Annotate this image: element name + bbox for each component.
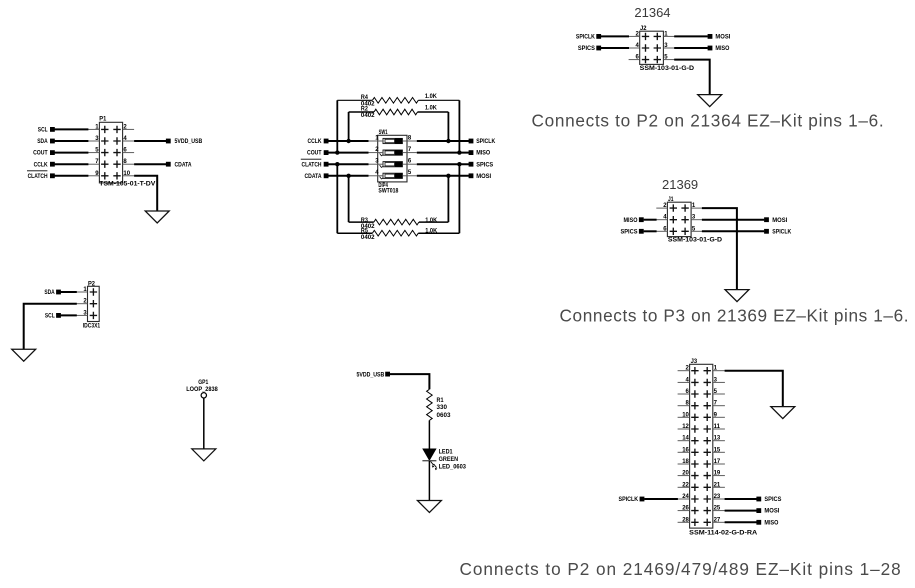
svg-text:SSM-114-02-G-D-RA: SSM-114-02-G-D-RA	[689, 530, 758, 537]
wire R3 left vertical	[348, 176, 350, 222]
terminal SPICLK (J3)	[619, 496, 645, 503]
test loop GP1 labels	[186, 379, 218, 393]
junction R2-CCLK	[346, 139, 350, 143]
wire LED1 to ground	[428, 461, 430, 501]
wire net CLATCH to P1 pin 9	[54, 175, 89, 177]
P1 pin stubs	[88, 129, 134, 175]
svg-text:SSM-103-01-G-D: SSM-103-01-G-D	[668, 237, 723, 244]
svg-text:SCL: SCL	[38, 127, 48, 134]
svg-text:CDATA: CDATA	[175, 161, 192, 168]
J3 pin numbers	[682, 366, 721, 524]
wire R4 right vertical	[458, 100, 460, 152]
svg-text:330: 330	[437, 404, 448, 411]
ground (J1 pin 1)	[725, 290, 749, 302]
terminal SDA	[37, 138, 55, 145]
svg-text:5VDD_USB: 5VDD_USB	[175, 138, 203, 145]
svg-text:J3: J3	[691, 358, 698, 365]
junction R5-SPICS	[457, 162, 461, 166]
wire net SPICS from SW1	[417, 163, 469, 165]
svg-text:SPICS: SPICS	[764, 496, 781, 503]
wire net CCLK to P1 pin 7	[54, 163, 89, 165]
wire R5 right vertical	[458, 164, 460, 233]
wire R4 left vertical	[336, 100, 338, 152]
resistor R3	[349, 217, 449, 230]
svg-text:MOSI: MOSI	[476, 173, 491, 180]
svg-text:1.0K: 1.0K	[425, 228, 437, 235]
svg-text:SPICS: SPICS	[621, 228, 638, 235]
svg-text:R1: R1	[437, 397, 444, 404]
J2 pin numbers	[636, 31, 669, 60]
wire net MOSI from SW1	[417, 175, 469, 177]
wire net MISO to J1 pin 4	[644, 219, 657, 221]
wire R2 right vertical	[447, 112, 449, 141]
wire net SPICS to J1 pin 6	[644, 230, 657, 232]
svg-text:1.0K: 1.0K	[425, 93, 437, 100]
terminal SPICS (J2)	[578, 45, 601, 52]
wire net SDA to P1 pin 3	[54, 140, 89, 142]
svg-text:CLATCH: CLATCH	[302, 161, 322, 168]
terminal MISO (J3)	[756, 519, 778, 526]
svg-text:P1: P1	[99, 116, 107, 123]
connector J2	[640, 31, 664, 64]
junction R2-SPICLK	[446, 139, 450, 143]
wire net 5VDD_USB from P1 pin 4	[134, 140, 166, 142]
svg-text:MOSI: MOSI	[715, 34, 730, 41]
svg-text:0603: 0603	[437, 412, 452, 419]
terminal MOSI (J1)	[764, 217, 787, 224]
wire R3 right vertical	[447, 176, 449, 222]
terminal CDATA	[166, 161, 192, 168]
terminal CLATCH (SW1 side)	[301, 159, 329, 168]
svg-text:CLATCH: CLATCH	[28, 173, 48, 180]
wire J3 pin 1 to ground	[725, 371, 783, 407]
svg-text:MOSI: MOSI	[764, 508, 779, 515]
wire net CCLK to SW1	[327, 140, 368, 142]
svg-text:1.0K: 1.0K	[425, 104, 437, 111]
junction R4-COUT	[335, 150, 339, 154]
wire R2 left vertical	[348, 112, 350, 141]
svg-text:COUT: COUT	[307, 150, 322, 157]
connector J3	[690, 364, 713, 528]
svg-text:Connects to P2 on 21469/479/48: Connects to P2 on 21469/479/489 EZ–Kit p…	[460, 559, 902, 579]
svg-text:SPICS: SPICS	[476, 161, 493, 168]
terminal COUT (SW1 side)	[307, 150, 329, 157]
ground (J3 pin 1)	[771, 407, 795, 419]
terminal SPICS (J1)	[621, 228, 644, 235]
svg-text:SPICLK: SPICLK	[619, 496, 639, 503]
svg-text:SSM-103-01-G-D: SSM-103-01-G-D	[640, 65, 695, 72]
wire J1 pin 1 to ground	[702, 208, 737, 290]
wire net MOSI from J3 pin 25	[725, 510, 757, 512]
svg-text:LOOP_2838: LOOP_2838	[186, 386, 218, 393]
svg-text:SPICLK: SPICLK	[772, 228, 791, 235]
terminal CCLK	[34, 161, 55, 168]
terminal SPICS (J3)	[756, 496, 781, 503]
wire net SCL to P2 pin 3	[60, 314, 77, 316]
wire P2 pin 2 to ground	[24, 304, 77, 350]
svg-text:MISO: MISO	[715, 45, 729, 52]
terminal SPICLK (SW1 side)	[469, 138, 496, 145]
svg-text:P2: P2	[88, 280, 96, 287]
terminal MOSI (SW1 side)	[469, 173, 492, 180]
svg-text:LED_0603: LED_0603	[439, 464, 467, 471]
svg-text:SPICS: SPICS	[578, 45, 595, 52]
wire net CDATA to SW1	[327, 175, 368, 177]
wire net COUT to SW1	[327, 152, 368, 154]
wire J2 pin 5 to ground	[674, 60, 710, 95]
svg-text:J2: J2	[640, 25, 647, 32]
svg-text:MOSI: MOSI	[772, 217, 787, 224]
LED LED1	[422, 449, 466, 471]
terminal MISO (J2)	[708, 45, 730, 52]
wire net CDATA from P1 pin 8	[134, 163, 166, 165]
wire net SPICLK from J1 pin 5	[702, 230, 764, 232]
terminal MOSI (J3)	[756, 508, 779, 515]
terminal MISO (J1)	[624, 217, 644, 224]
terminal MOSI (J2)	[708, 34, 731, 41]
svg-text:21364: 21364	[634, 5, 670, 20]
svg-text:GREEN: GREEN	[439, 456, 459, 463]
wire 5VDD_USB to R1	[390, 374, 430, 389]
svg-text:SW1: SW1	[379, 129, 388, 136]
junction R3-MOSI	[446, 174, 450, 178]
terminal SPICLK (J2)	[576, 34, 601, 41]
svg-text:0402: 0402	[361, 112, 375, 119]
svg-text:1.0K: 1.0K	[425, 217, 437, 224]
ground (P2 pin 2)	[12, 349, 36, 361]
terminal SPICLK (J1)	[764, 228, 792, 235]
J1 pin numbers	[663, 203, 696, 232]
resistor R4	[337, 93, 459, 108]
terminal CDATA (SW1 side)	[305, 173, 329, 180]
wire net SPICS from J3 pin 23	[725, 498, 757, 500]
P2 pin stubs	[76, 292, 87, 315]
terminal 5VDD_USB (LED branch)	[357, 371, 391, 378]
svg-text:CCLK: CCLK	[308, 138, 322, 145]
ground (P1 pin 10)	[145, 211, 169, 223]
svg-text:TSM-105-01-T-DV: TSM-105-01-T-DV	[99, 180, 156, 187]
terminal 5VDD_USB	[166, 138, 203, 145]
svg-text:J1: J1	[668, 196, 674, 203]
wire net SPICLK to J3 pin 24	[644, 498, 678, 500]
terminal SPICS (SW1 side)	[469, 161, 494, 168]
wire P1 pin 10 to ground	[134, 176, 157, 211]
wire GP1 to ground	[203, 398, 205, 449]
SW1 value labels DIP4 / SWT018	[378, 182, 398, 194]
wire net MOSI from J2 pin 1	[674, 35, 708, 37]
svg-text:0402: 0402	[361, 234, 375, 241]
wire net MISO from SW1	[417, 152, 469, 154]
svg-text:SDA: SDA	[44, 289, 55, 296]
svg-text:SPICLK: SPICLK	[576, 34, 595, 41]
SW1 pin numbers	[375, 135, 412, 176]
svg-text:5VDD_USB: 5VDD_USB	[357, 371, 385, 378]
wire net MISO from J3 pin 27	[725, 521, 757, 523]
terminal SCL	[38, 127, 55, 134]
wire net CLATCH to SW1	[327, 163, 368, 165]
connector P2	[88, 286, 100, 321]
svg-text:Connects to P2 on 21364 EZ–Kit: Connects to P2 on 21364 EZ–Kit pins 1–6.	[532, 111, 885, 131]
ground (J2 pin 5)	[698, 95, 722, 107]
switch SW1 DIP4	[378, 135, 407, 182]
svg-text:CCLK: CCLK	[34, 161, 48, 168]
terminal COUT	[33, 150, 55, 157]
svg-text:CDATA: CDATA	[305, 173, 322, 180]
junction R3-CDATA	[346, 174, 350, 178]
svg-text:SCL: SCL	[45, 313, 55, 320]
svg-text:SWT018: SWT018	[378, 188, 398, 195]
J1 pin stubs	[656, 208, 702, 231]
resistor R5	[337, 228, 459, 242]
resistor R2	[349, 104, 449, 119]
svg-text:SPICLK: SPICLK	[476, 138, 495, 145]
J3 pin stubs	[678, 371, 725, 523]
P1 pin numbers	[95, 124, 130, 176]
svg-text:0402: 0402	[361, 101, 375, 108]
svg-text:IDC3X1: IDC3X1	[83, 322, 101, 329]
wire net SCL to P1 pin 1	[54, 128, 89, 130]
connector J1	[667, 202, 691, 236]
P2 pin numbers	[83, 287, 87, 316]
svg-text:MISO: MISO	[764, 519, 778, 526]
connector P1	[99, 122, 122, 183]
wire net COUT to P1 pin 5	[54, 152, 89, 154]
ground (GP1)	[192, 449, 216, 461]
wire net MISO from J2 pin 3	[674, 47, 708, 49]
svg-text:COUT: COUT	[33, 150, 48, 157]
terminal MISO (SW1 side)	[469, 150, 491, 157]
svg-text:SDA: SDA	[37, 138, 48, 145]
resistor R1	[427, 389, 451, 420]
svg-text:MISO: MISO	[476, 150, 490, 157]
wire R5 left vertical	[336, 164, 338, 233]
wire net SPICS to J2 pin 4	[601, 47, 629, 49]
J2 pin stubs	[629, 36, 675, 59]
wire R1 to LED1	[428, 420, 430, 449]
junction R4-MISO	[457, 150, 461, 154]
wire net SPICLK to J2 pin 2	[601, 35, 629, 37]
svg-text:LED1: LED1	[439, 449, 453, 456]
wire net SPICLK from SW1	[417, 140, 469, 142]
terminal CLATCH	[27, 171, 55, 180]
svg-text:21369: 21369	[662, 177, 698, 192]
wire net MOSI from J1 pin 3	[702, 219, 764, 221]
terminal CCLK (SW1 side)	[308, 138, 329, 145]
junction R5-CLATCH	[335, 162, 339, 166]
SW1 pin stubs	[368, 141, 417, 176]
svg-text:Connects to P3 on 21369 EZ–Kit: Connects to P3 on 21369 EZ–Kit pins 1–6.	[560, 305, 910, 325]
terminal SCL	[45, 313, 61, 320]
terminal SDA	[44, 289, 60, 296]
ground (LED1)	[417, 501, 441, 513]
test loop GP1	[201, 393, 206, 398]
svg-text:MISO: MISO	[624, 217, 638, 224]
wire net SDA to P2 pin 1	[60, 291, 77, 293]
